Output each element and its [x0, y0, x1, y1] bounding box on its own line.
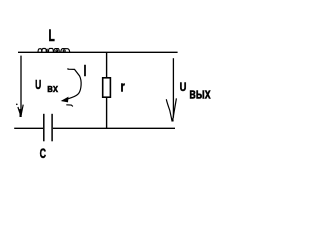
- wire: resistor branch bottom: [106, 97, 108, 128]
- arrow U_vyh head: [166, 98, 176, 121]
- capacitor C right plate: [51, 114, 53, 142]
- curved arrow I (current loop): [62, 68, 81, 101]
- wire: resistor branch top: [106, 52, 108, 77]
- svg-text:r: r: [121, 79, 125, 96]
- arrow U_vx head: [18, 105, 23, 117]
- extra scribble stroke under I head: [66, 105, 73, 107]
- inductor L (hand-drawn coil humps): [38, 48, 70, 52]
- svg-text:U: U: [35, 78, 41, 92]
- arrow U_vyh shaft: [172, 58, 174, 117]
- stray dot near U_vx head: [16, 104, 18, 106]
- wire: bottom rail right: [53, 127, 175, 129]
- wire: top rail: [18, 51, 178, 53]
- svg-text:вых: вых: [189, 86, 211, 103]
- arrow U_vx shaft: [20, 56, 22, 112]
- svg-text:вх: вх: [47, 83, 58, 95]
- curved arrow I head: [61, 97, 69, 103]
- capacitor C left plate: [43, 114, 45, 142]
- resistor r body: [103, 78, 111, 97]
- svg-text:U: U: [180, 82, 187, 94]
- svg-text:C: C: [40, 146, 46, 162]
- svg-text:I: I: [84, 63, 87, 80]
- svg-text:L: L: [49, 27, 55, 45]
- wire: bottom rail left: [14, 127, 43, 129]
